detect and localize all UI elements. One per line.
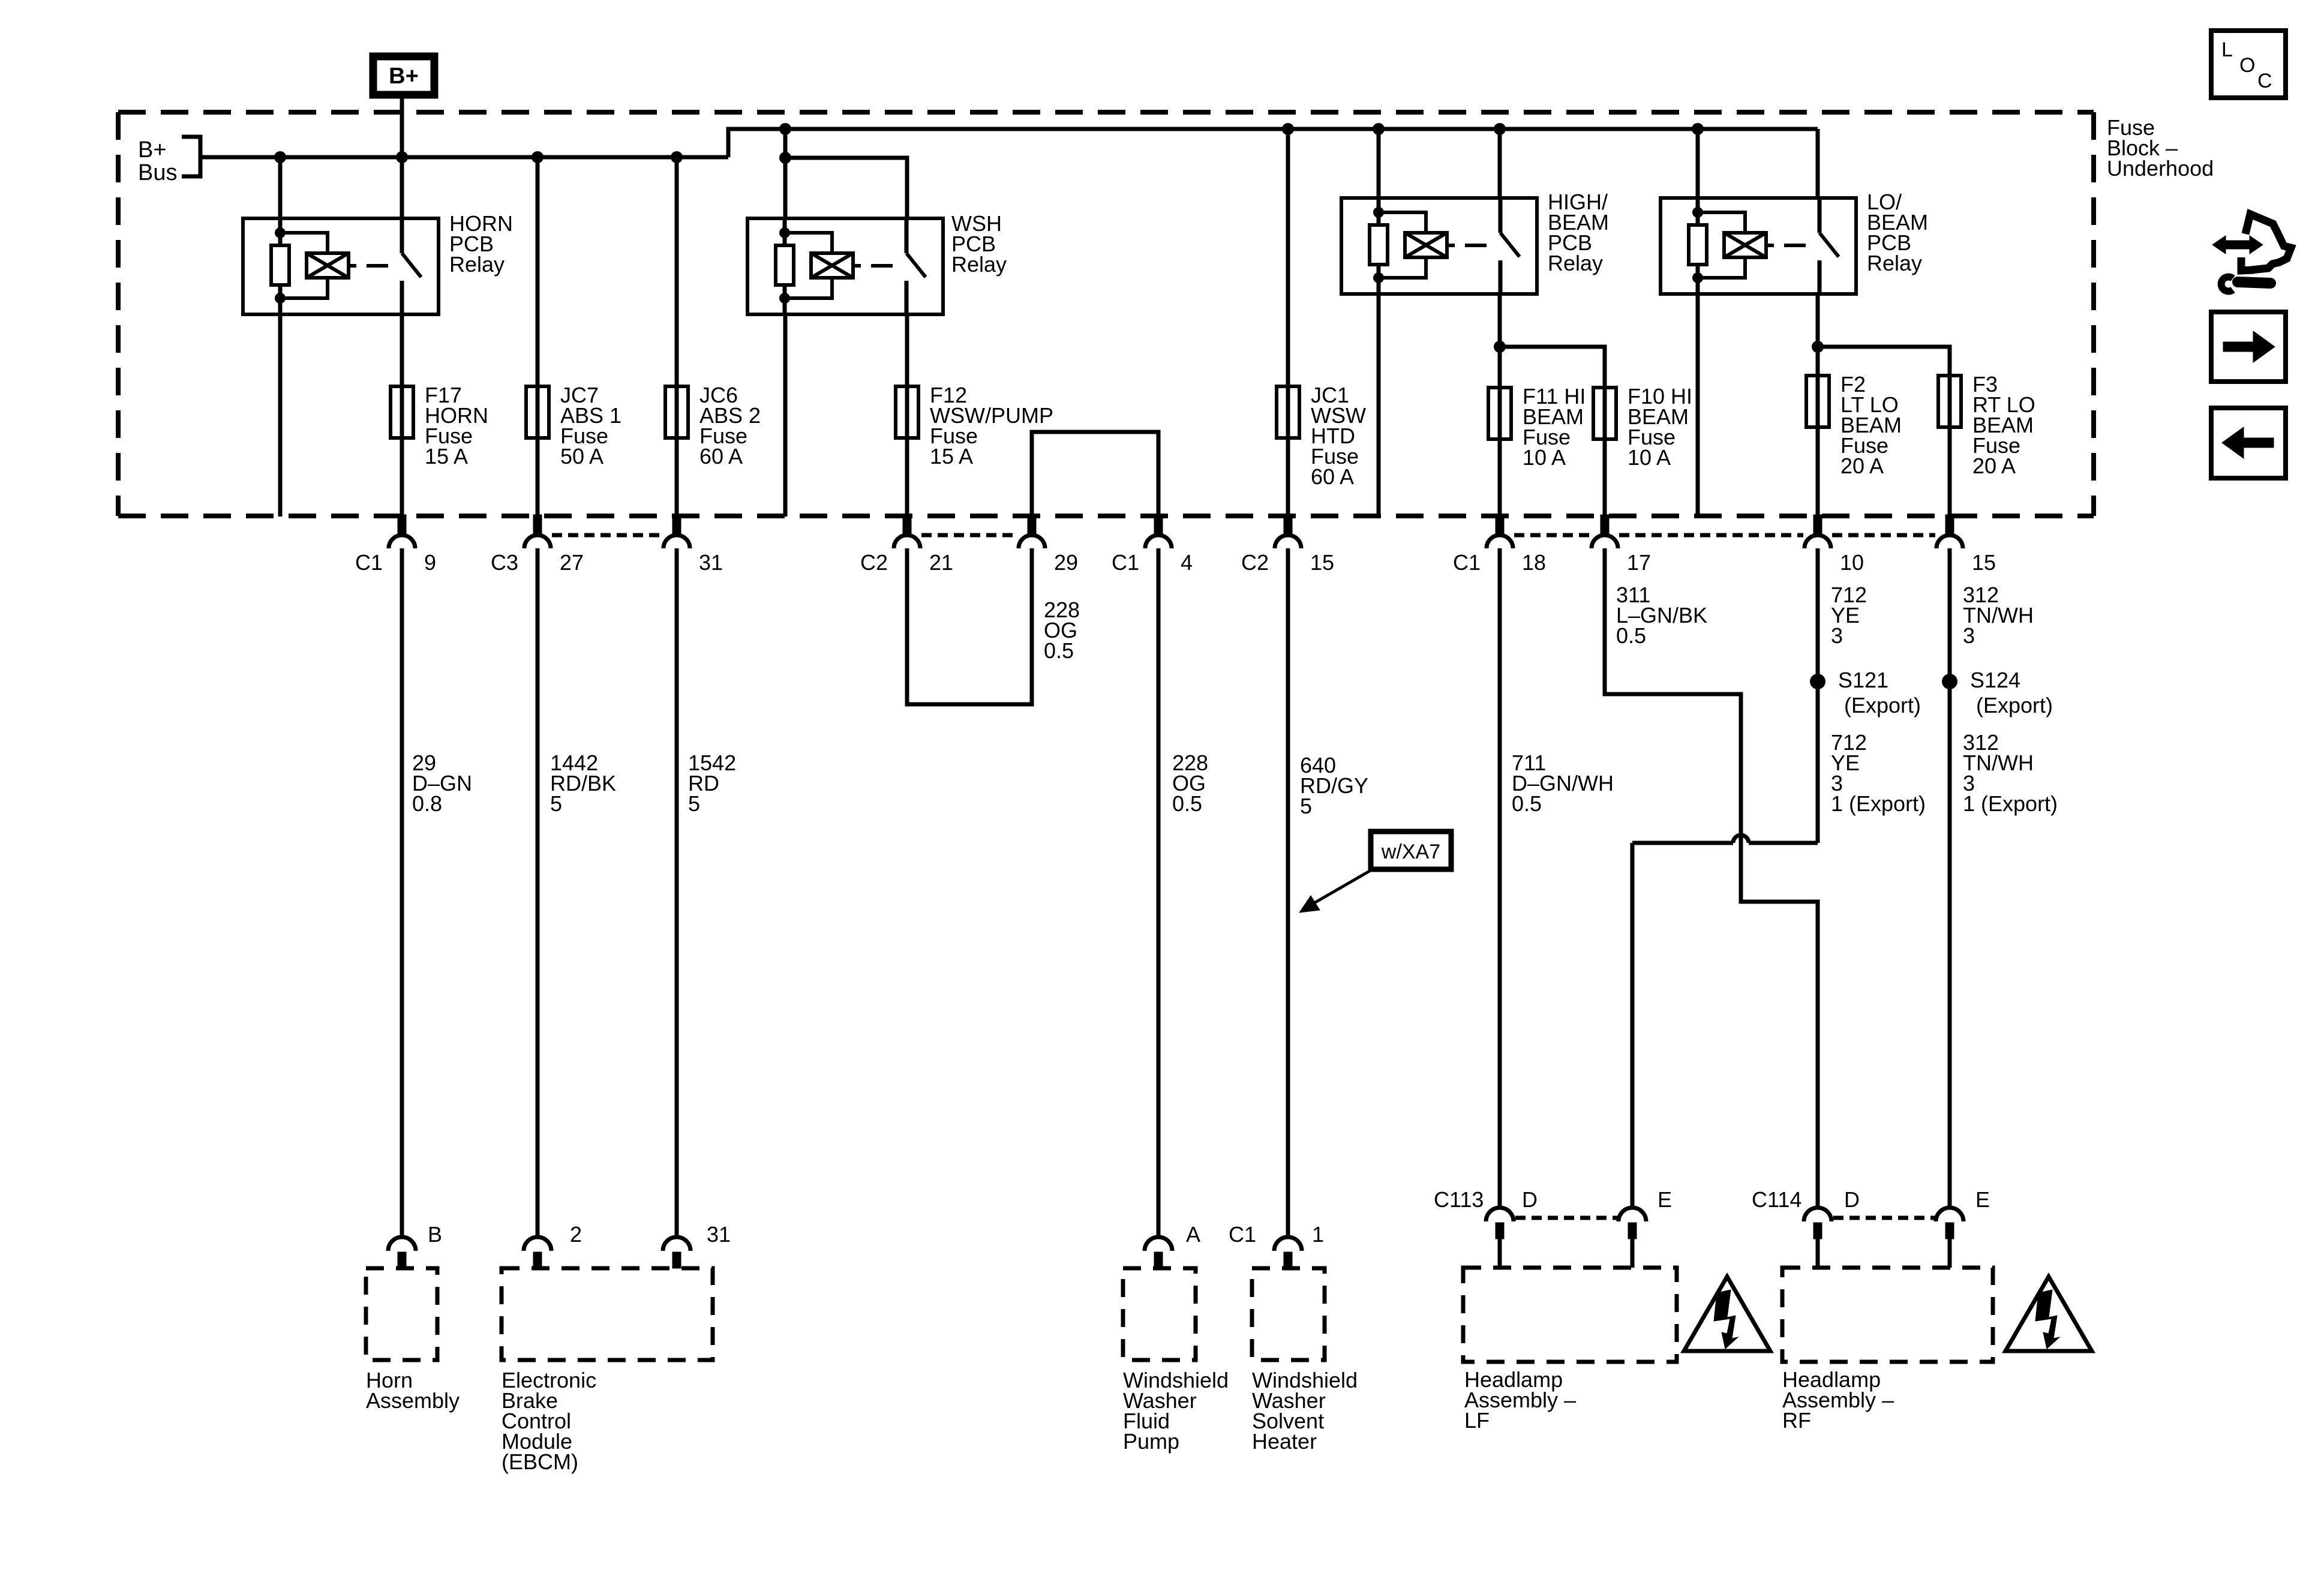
connector heater C1-1 arc [1274, 1237, 1302, 1251]
connector C2-21 arc [894, 535, 920, 548]
wire upper bus to WSH relay coil [783, 129, 788, 218]
warning triangle at LF headlamp [1684, 1277, 1770, 1351]
relay HORN PCB switch [402, 218, 421, 314]
wire branch to fuse F3 [1818, 347, 1950, 376]
connector C113 pin D arc [1486, 1208, 1514, 1221]
connector C1-18 pin [1496, 515, 1504, 535]
connector C1-4 pin [1154, 515, 1163, 535]
wire C113 D into LF headlamp [1498, 1238, 1502, 1268]
connector C3-31 arc [663, 535, 690, 548]
callout w/XA7 box [1371, 831, 1451, 869]
svg-text:31: 31 [699, 550, 723, 575]
junction on bus at B+ feed [396, 151, 408, 163]
svg-text:C1: C1 [1112, 550, 1139, 575]
svg-text:D: D [1522, 1187, 1538, 1212]
wire LO relay coil to block edge [1696, 294, 1700, 517]
svg-text:15: 15 [1972, 550, 1996, 575]
wire B+ to horn relay switch [400, 157, 404, 218]
wire 712 YE below splice S121 [1816, 682, 1820, 843]
wire fuse F2 to connector 10 [1816, 428, 1820, 516]
connector group dashes C1 18-17 [1514, 533, 1590, 538]
connector C113 pin E arc [1619, 1208, 1646, 1221]
connector C2-21 pin [903, 515, 911, 535]
wire upper bus end to LO relay switch [1816, 129, 1820, 198]
wire upper bus to HIGH relay switch [1498, 129, 1502, 198]
svg-text:HIGH/BEAMPCBRelay: HIGH/BEAMPCBRelay [1548, 190, 1609, 275]
connector horn B pin [398, 1252, 406, 1268]
callout w/XA7 arrow [1299, 869, 1373, 912]
wire fuse F3 to connector 15 [1948, 428, 1952, 516]
wire WSH relay coil to block edge [783, 314, 788, 517]
fuse JC7 [526, 385, 549, 439]
relay HIGH BEAM PCB coil circuit [1370, 198, 1487, 294]
wire LO relay switch down [1816, 294, 1820, 377]
fuse JC1 [1277, 385, 1299, 439]
icon vehicle with arrows and wrench [2212, 214, 2291, 292]
connector C3-27 pin [533, 515, 542, 535]
wire B+ bus horizontal left section [200, 155, 728, 160]
relay HIGH BEAM PCB switch [1500, 198, 1520, 294]
wire 640 RD/GY 5 to solvent heater [1286, 548, 1290, 1237]
wire 312 TN/WH 3 from fuse F3 to splice S124 [1948, 548, 1952, 682]
wire bus to fuse JC6 [675, 157, 679, 386]
junction on bus at fuse JC6 [671, 151, 683, 163]
connector C2-15 arc [1275, 535, 1301, 548]
component EBCM box [502, 1268, 713, 1360]
relay HORN PCB box [243, 218, 439, 314]
wire bus to horn relay coil [278, 157, 283, 218]
wire fuse F17 to connector C1-9 [400, 439, 404, 516]
svg-text:B: B [428, 1222, 442, 1247]
fuse F3 [1938, 374, 1961, 428]
junction HIGH beam split [1494, 341, 1506, 353]
svg-text:1: 1 [1312, 1222, 1324, 1247]
icon arrow right box [2211, 312, 2286, 382]
wire fuse JC6 to connector 31 [675, 439, 679, 516]
wire horn relay switch to fuse F17 [400, 314, 404, 388]
relay WSH PCB box [747, 218, 943, 314]
component Windshield Washer Fluid Pump box [1123, 1268, 1196, 1360]
svg-text:21: 21 [929, 550, 953, 575]
wire upper bus to HIGH relay coil [1377, 129, 1381, 198]
connector C3-27 arc [524, 535, 551, 548]
fuse JC6 [665, 385, 688, 439]
svg-text:O: O [2239, 54, 2255, 77]
relay HORN PCB coil circuit [271, 218, 388, 314]
connector C114 pin E arc [1936, 1208, 1963, 1221]
junction on upper bus at WSH coil [779, 123, 791, 135]
connector heater C1-1 pin [1284, 1252, 1292, 1268]
connector C2-15 pin [1284, 515, 1292, 535]
connector washer pump A pin [1154, 1252, 1163, 1268]
svg-text:4: 4 [1181, 550, 1193, 575]
fuse F2 [1806, 374, 1829, 428]
svg-text:E: E [1658, 1187, 1672, 1212]
junction on upper bus at LO coil [1692, 123, 1704, 135]
svg-text:10: 10 [1840, 550, 1864, 575]
connector C1-17 pin [1601, 515, 1609, 535]
connector C1-10 arc [1804, 535, 1831, 548]
splice S124 [1942, 674, 1957, 689]
wire 711 D-GN/WH 0.5 to LF headlamp D [1498, 548, 1502, 1206]
svg-text:C1: C1 [355, 550, 383, 575]
wire 311 L-GN/BK 0.5 zigzag to RF headlamp D [1605, 548, 1818, 1206]
wire C113 E into LF headlamp [1631, 1238, 1635, 1268]
connector EBCM pin 31 pin [672, 1252, 681, 1268]
wire 312 TN/WH to RF headlamp E [1948, 682, 1952, 1206]
wire 29 D-GN 0.8 horn circuit [400, 548, 404, 1237]
svg-text:C114: C114 [1752, 1187, 1801, 1212]
svg-text:C: C [2257, 70, 2272, 92]
connector C2-29 pin [1028, 515, 1036, 535]
connector C114 group dashes D-E [1833, 1216, 1936, 1220]
svg-text:E: E [1975, 1187, 1990, 1212]
connector washer pump A arc [1145, 1237, 1172, 1251]
connector group dashes C2 21-29 [921, 533, 1017, 538]
icon LOC box [2211, 31, 2286, 98]
relay LO BEAM PCB switch [1819, 198, 1839, 294]
connector C114 pin E pin [1945, 1223, 1954, 1239]
connector C113 pin E pin [1628, 1223, 1637, 1239]
wire branch to WSH relay switch [785, 158, 907, 218]
svg-text:17: 17 [1627, 550, 1651, 575]
connector C1-18 arc [1487, 535, 1513, 548]
fuse F10 [1593, 386, 1616, 440]
svg-text:27: 27 [560, 550, 584, 575]
svg-text:C1: C1 [1453, 550, 1481, 575]
svg-text:31: 31 [707, 1222, 731, 1247]
connector C1-15 pin [1945, 515, 1954, 535]
connector group dashes C3 27-31 [552, 533, 662, 538]
junction LO beam split [1812, 341, 1824, 353]
wire upper bus to LO relay coil [1696, 129, 1700, 198]
svg-text:29: 29 [1054, 550, 1078, 575]
fuse F11 [1488, 386, 1511, 440]
wire 228 OG 0.5 to washer pump [1157, 548, 1161, 1237]
relay HIGH BEAM PCB box [1341, 198, 1537, 294]
svg-text:15: 15 [1310, 550, 1334, 575]
relay WSH PCB switch [906, 218, 926, 314]
wire fuse F10 to connector 17 [1603, 440, 1607, 516]
splice S121 [1810, 674, 1825, 689]
junction on bus at fuse JC7 [532, 151, 544, 163]
wire branch to fuse F10 [1500, 347, 1605, 388]
warning triangle at RF headlamp [2005, 1277, 2092, 1351]
B+ Bus bracket [182, 137, 200, 176]
connector C114 pin D arc [1804, 1208, 1831, 1221]
wire HIGH relay coil to block edge [1377, 294, 1381, 517]
wire fuse F11 to connector C1-18 [1498, 440, 1502, 516]
wire WSW loop inside block [1032, 432, 1158, 517]
svg-text:9: 9 [424, 550, 436, 575]
connector C1-15 arc [1936, 535, 1963, 548]
fuse F12 [896, 385, 918, 439]
wire HIGH relay switch down [1498, 294, 1502, 389]
connector EBCM pin 2 pin [533, 1252, 542, 1268]
svg-text:2: 2 [570, 1222, 582, 1247]
connector C3-31 pin [672, 515, 681, 535]
svg-text:C3: C3 [491, 550, 518, 575]
wire fuse JC7 to connector C3-27 [536, 439, 540, 516]
wire 1542 RD 5 to EBCM pin 31 [675, 548, 679, 1237]
junction on upper bus at HIGH switch [1494, 123, 1506, 135]
svg-text:D: D [1844, 1187, 1860, 1212]
relay LO BEAM PCB coil circuit [1689, 198, 1806, 294]
component Headlamp Assembly RF box [1782, 1268, 1993, 1362]
junction on upper bus at fuse JC1 [1282, 123, 1294, 135]
connector group dashes C1 10-15 [1832, 533, 1935, 538]
connector group dashes C1 17-10 [1619, 533, 1803, 538]
wire 1442 RD/BK 5 to EBCM pin 2 [536, 548, 540, 1237]
power symbol B+ box [373, 56, 434, 95]
fuse F17 [391, 385, 413, 439]
junction on bus at horn coil [274, 151, 286, 163]
component Horn Assembly box [366, 1268, 437, 1360]
connector C1-9 pin [398, 515, 406, 535]
relay LO BEAM PCB box [1661, 198, 1856, 294]
wire bus to fuse JC7 [536, 157, 540, 386]
wire WSH relay switch to fuse F12 [905, 314, 909, 388]
svg-text:C2: C2 [860, 550, 888, 575]
connector EBCM pin 2 arc [524, 1237, 551, 1251]
wire fuse F12 to connector C2-21 [905, 439, 909, 516]
svg-text:C1: C1 [1229, 1222, 1256, 1247]
junction on upper bus at HIGH coil [1373, 123, 1385, 135]
component Headlamp Assembly LF box [1463, 1268, 1677, 1362]
svg-text:18: 18 [1522, 550, 1546, 575]
connector EBCM pin 31 arc [663, 1237, 690, 1251]
wire fuse JC1 to connector C2-15 [1286, 439, 1290, 516]
relay WSH PCB coil circuit [776, 218, 893, 314]
wire 228 OG loop below block [907, 548, 1032, 704]
svg-text:L: L [2221, 38, 2233, 61]
connector C1-4 arc [1145, 535, 1172, 548]
connector horn B arc [388, 1237, 416, 1251]
wire upper bus to fuse JC1 [1286, 129, 1290, 386]
connector C1-9 arc [389, 535, 415, 548]
wire C114 D into RF headlamp [1816, 1238, 1820, 1268]
fuse block underhood dashed border [118, 112, 2094, 516]
connector C114 pin D pin [1813, 1223, 1822, 1239]
component Windshield Washer Solvent Heater box [1252, 1268, 1325, 1360]
wire horn relay coil to block edge [278, 314, 283, 517]
svg-text:C2: C2 [1241, 550, 1269, 575]
connector C1-10 pin [1813, 515, 1822, 535]
connector C113 pin D pin [1496, 1223, 1504, 1239]
icon arrow left box [2211, 408, 2286, 478]
svg-text:A: A [1186, 1222, 1200, 1247]
svg-text:B+: B+ [389, 64, 419, 89]
connector C2-29 arc [1019, 535, 1045, 548]
wire 712 YE horizontal with crossover hop [1632, 835, 1818, 1206]
wire C114 E into RF headlamp [1948, 1238, 1952, 1268]
svg-text:w/XA7: w/XA7 [1381, 840, 1440, 863]
connector C1-17 arc [1592, 535, 1618, 548]
wire B+ bus step up [728, 129, 1818, 157]
svg-text:C113: C113 [1434, 1187, 1484, 1212]
connector C113 group dashes D-E [1515, 1216, 1619, 1220]
wire B+ feed down to bus [400, 95, 404, 157]
wire 712 YE 3 from fuse F2 to splice S121 [1816, 548, 1820, 682]
junction WSH switch branch [779, 152, 791, 164]
